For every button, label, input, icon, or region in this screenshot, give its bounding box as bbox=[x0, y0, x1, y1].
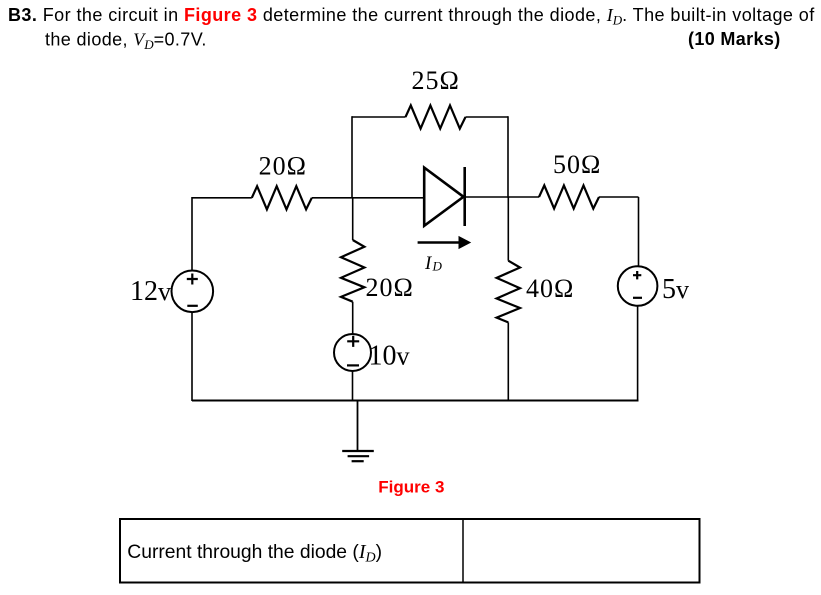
svg-text:20Ω: 20Ω bbox=[366, 273, 414, 302]
resistor 50ohm bbox=[539, 185, 599, 208]
svg-text:D: D bbox=[432, 259, 443, 274]
wire diode cathode to node C bbox=[465, 196, 539, 198]
marks label bbox=[688, 29, 781, 49]
svg-text:50Ω: 50Ω bbox=[553, 150, 601, 179]
resistor 25ohm bbox=[406, 105, 466, 128]
svg-text:25Ω: 25Ω bbox=[412, 66, 460, 95]
diode D1 cathode bar bbox=[463, 167, 466, 226]
label 20ohm shunt bbox=[366, 273, 414, 302]
wire 40ohm to bottom rail bbox=[507, 322, 509, 401]
wire left vertical of 25ohm loop (node A down to node B) bbox=[351, 116, 353, 198]
wire right branch upper (to 5V source) bbox=[638, 197, 640, 266]
label 50ohm bbox=[553, 150, 601, 179]
diode D1 triangle bbox=[424, 168, 463, 226]
wire top-left (node A to 25ohm) bbox=[352, 116, 406, 118]
answer table border bbox=[120, 519, 700, 583]
svg-text:B3. For the circuit in Figure: B3. For the circuit in Figure 3 determin… bbox=[8, 5, 815, 28]
resistor 20ohm shunt bbox=[341, 240, 364, 302]
label 25ohm bbox=[412, 66, 460, 95]
figure caption bbox=[378, 477, 444, 496]
wire left branch lower (12V to bottom rail) bbox=[191, 312, 193, 401]
wire 5V source to bottom rail bbox=[637, 306, 639, 401]
wire node B to diode anode bbox=[312, 197, 423, 199]
svg-text:Figure 3: Figure 3 bbox=[378, 477, 444, 496]
svg-text:20Ω: 20Ω bbox=[259, 152, 307, 181]
source 12V minus bbox=[187, 305, 198, 307]
source 5V circle bbox=[618, 266, 658, 306]
problem statement line 2 bbox=[45, 30, 207, 53]
source 5V plus bbox=[633, 271, 641, 279]
svg-text:Current through the diode (ID): Current through the diode (ID) bbox=[127, 541, 382, 566]
source 5V minus bbox=[633, 297, 642, 299]
svg-text:the diode, VD=0.7V.: the diode, VD=0.7V. bbox=[45, 30, 207, 53]
source 10V plus bbox=[347, 336, 359, 347]
wire node C down to 40ohm bbox=[507, 197, 509, 261]
ground stem wire bbox=[357, 401, 359, 452]
label 40ohm bbox=[526, 274, 574, 303]
answer table divider bbox=[462, 519, 464, 583]
resistor 40ohm bbox=[497, 261, 520, 323]
svg-text:10v: 10v bbox=[369, 340, 410, 371]
ground symbol bbox=[342, 451, 374, 461]
svg-text:5v: 5v bbox=[662, 274, 689, 305]
svg-text:40Ω: 40Ω bbox=[526, 274, 574, 303]
wire middle-left (12V corner to 20ohm) bbox=[192, 197, 252, 199]
wire 10V source to bottom rail bbox=[352, 371, 354, 401]
wire left branch upper (to 12V source) bbox=[191, 197, 193, 271]
wire node B down to 20ohm shunt bbox=[352, 198, 354, 240]
label 12v bbox=[130, 276, 171, 307]
label ID bbox=[424, 253, 443, 274]
label 20ohm series bbox=[259, 152, 307, 181]
wire 20ohm shunt to 10V source bbox=[352, 302, 354, 335]
wire right vertical of 25ohm loop (down to node C) bbox=[507, 116, 509, 198]
problem statement line 1 bbox=[8, 5, 815, 28]
source 12V plus bbox=[187, 274, 198, 285]
wire top-right (25ohm to right corner) bbox=[466, 116, 509, 118]
source 12V circle bbox=[172, 271, 214, 313]
label 10v bbox=[369, 340, 410, 371]
bottom rail wire bbox=[192, 400, 639, 402]
label 5v bbox=[662, 274, 689, 305]
answer table row label bbox=[127, 541, 382, 566]
wire 50ohm to right corner bbox=[599, 196, 639, 198]
source 10V circle bbox=[334, 334, 371, 371]
current arrow ID bbox=[418, 236, 472, 249]
svg-text:12v: 12v bbox=[130, 276, 171, 307]
resistor 20ohm series bbox=[252, 186, 312, 209]
svg-text:(10 Marks): (10 Marks) bbox=[688, 29, 781, 49]
source 10V minus bbox=[347, 364, 359, 366]
